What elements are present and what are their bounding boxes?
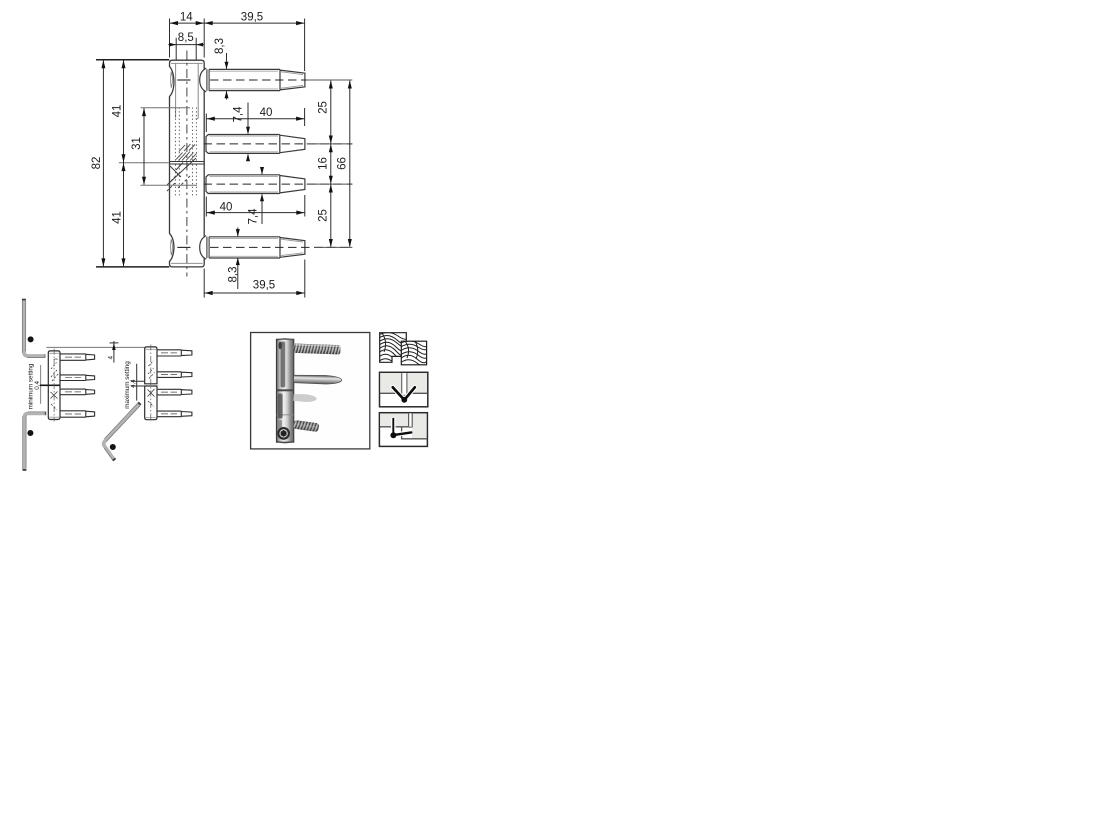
7,4 top bbox=[246, 127, 250, 135]
14 bbox=[170, 21, 178, 25]
8,3 top dim bbox=[226, 53, 228, 69]
thread hatch upper knuckle bbox=[176, 144, 197, 161]
svg-text:40: 40 bbox=[260, 107, 273, 119]
svg-text:1: 1 bbox=[29, 338, 32, 344]
H1 body bbox=[48, 351, 60, 420]
dim 0,4 bbox=[34, 365, 48, 404]
photo frame bbox=[251, 333, 370, 449]
socket screw bbox=[278, 428, 289, 439]
H2 upper knuckle bbox=[145, 347, 157, 384]
body bottom inner cap line bbox=[171, 262, 203, 264]
41/41 bbox=[122, 60, 126, 68]
8,3 bottom bbox=[236, 229, 240, 237]
dim line 14 / 39,5 bbox=[170, 22, 305, 24]
7,4 bottom bbox=[260, 167, 264, 175]
hinge body outline bbox=[170, 60, 205, 267]
hidden thread lines (lower knuckle) bbox=[175, 165, 196, 197]
pin P4 (bottom, leaf pin) bbox=[200, 236, 353, 260]
top reference line bbox=[46, 346, 144, 348]
hinge H1 (minimum) bbox=[46, 347, 144, 421]
svg-text:41: 41 bbox=[111, 105, 123, 118]
photo: hinge cylinder bbox=[276, 339, 293, 443]
40 top bbox=[207, 117, 215, 121]
photo: faded third pin bbox=[293, 393, 317, 402]
39,5 bottom bbox=[205, 291, 213, 295]
body top inner cap line bbox=[171, 62, 203, 64]
icon: insert pin (arrow into slot) bbox=[380, 372, 428, 407]
pin1 center cross in body bbox=[177, 79, 190, 81]
svg-text:40: 40 bbox=[220, 202, 233, 214]
dim 4,4 bbox=[130, 364, 145, 401]
svg-text:8,5: 8,5 bbox=[178, 32, 194, 44]
dimension labels bbox=[91, 12, 349, 292]
allen key K3 bbox=[104, 402, 141, 460]
body left crescent groove (upper) bbox=[171, 72, 173, 88]
badge 3 bbox=[110, 444, 116, 451]
svg-text:7,4: 7,4 bbox=[247, 208, 259, 225]
icon: wood blocks bbox=[376, 333, 430, 368]
allen key K1 bbox=[22, 300, 45, 358]
icon: turn key (adjust) bbox=[379, 413, 427, 447]
H2 interior marks bbox=[148, 361, 155, 408]
svg-text:7,4: 7,4 bbox=[233, 106, 245, 123]
H2 pins bbox=[157, 350, 192, 417]
25/16/25 bbox=[329, 80, 333, 88]
svg-text:3: 3 bbox=[111, 445, 114, 451]
inner bore lines bbox=[176, 63, 199, 119]
right: 25/16/25 and 66 bbox=[307, 79, 353, 81]
svg-text:2: 2 bbox=[29, 431, 32, 437]
svg-text:16: 16 bbox=[317, 157, 329, 170]
ext lines top bbox=[169, 19, 171, 58]
svg-text:66: 66 bbox=[336, 157, 348, 170]
66 bbox=[348, 80, 352, 88]
badge 2 bbox=[27, 430, 33, 437]
H1 interior marks bbox=[51, 359, 59, 410]
badge 1 bbox=[28, 336, 34, 343]
photo: dark bottom pin bbox=[293, 420, 319, 432]
svg-text:4,4: 4,4 bbox=[130, 379, 137, 388]
svg-text:82: 82 bbox=[91, 157, 103, 170]
39,5 bottom bbox=[203, 269, 205, 298]
knuckle joint line bbox=[170, 162, 205, 165]
svg-text:41: 41 bbox=[111, 211, 123, 224]
40 top bbox=[205, 114, 207, 133]
7,4 top bbox=[247, 103, 249, 134]
svg-text:8,3: 8,3 bbox=[227, 267, 239, 283]
svg-text:39,5: 39,5 bbox=[241, 12, 263, 24]
pin4 center cross in body bbox=[177, 246, 190, 248]
82 bbox=[101, 60, 105, 68]
adjustment cross marks lower knuckle bbox=[167, 158, 196, 191]
8,3 top bbox=[225, 62, 229, 69]
8,5 outside arrows bbox=[169, 43, 176, 47]
svg-text:31: 31 bbox=[131, 137, 143, 150]
dark smudge on lower body bbox=[278, 394, 283, 419]
hidden thread lines (upper knuckle) bbox=[175, 108, 196, 162]
svg-text:4: 4 bbox=[107, 356, 114, 360]
pin P3 (lower frame pin) bbox=[204, 175, 353, 194]
8,3 bottom bbox=[237, 228, 239, 237]
body left crescent groove (lower) bbox=[171, 239, 173, 255]
svg-text:39,5: 39,5 bbox=[253, 279, 275, 291]
svg-text:0,4: 0,4 bbox=[34, 381, 41, 390]
svg-text:25: 25 bbox=[317, 209, 329, 222]
H2 lower knuckle bbox=[145, 386, 157, 420]
allen key K2 bbox=[23, 412, 46, 470]
body center line bbox=[186, 51, 188, 277]
svg-text:25: 25 bbox=[317, 101, 329, 114]
svg-text:8,3: 8,3 bbox=[214, 38, 226, 54]
39,5 top bbox=[205, 21, 213, 25]
photo: threaded top pin bbox=[293, 344, 340, 355]
7,4 bottom bbox=[261, 168, 263, 175]
40 bottom bbox=[205, 197, 207, 217]
ext 8,5 bbox=[175, 38, 177, 60]
31 dim bbox=[143, 108, 145, 185]
hinge H2 (maximum) bbox=[145, 345, 192, 422]
40 bottom bbox=[207, 211, 215, 215]
pin P2 (upper frame pin) bbox=[204, 135, 353, 154]
31 bbox=[142, 108, 146, 116]
H1 pins bbox=[60, 354, 95, 417]
pin P1 (top, leaf pin) bbox=[200, 68, 353, 92]
dim 4 (offset between figures) bbox=[107, 341, 118, 363]
photo: bright middle pin bbox=[293, 375, 342, 385]
left: 82 and 41/41 bbox=[96, 59, 169, 61]
arrowheads bbox=[101, 21, 351, 295]
svg-text:14: 14 bbox=[180, 12, 193, 24]
